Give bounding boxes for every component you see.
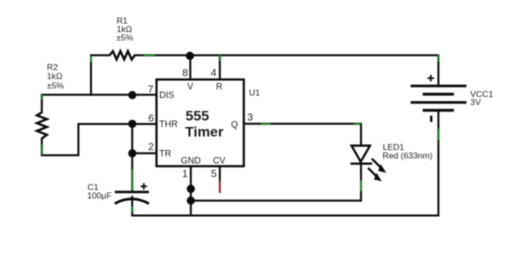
svg-text:3: 3: [247, 112, 253, 123]
svg-text:CV: CV: [213, 156, 226, 166]
wire: pin 8 V to top bus: [189, 56, 191, 80]
wire: top VCC bus from R1 right to battery +: [135, 55, 439, 86]
label LED1 value: [383, 142, 433, 160]
resistor R2: [37, 112, 47, 138]
wire: TR pin 2 horizontal: [132, 152, 156, 154]
wire: vertical THR-TR-C1 link: [131, 124, 133, 192]
svg-text:±5%: ±5%: [116, 32, 133, 42]
svg-text:DIS: DIS: [159, 90, 174, 100]
svg-text:±5%: ±5%: [47, 81, 64, 91]
node: junction dot THR: [128, 120, 136, 128]
wire: GND pin 1 down to bottom bus: [190, 166, 192, 215]
IC U1 555 timer box: [157, 80, 244, 167]
wire: green tick above R2 bottom corner: [41, 145, 43, 155]
wire: green tick below R1 left corner: [90, 56, 92, 62]
capacitor C1: [115, 183, 149, 204]
label R2 value: [47, 62, 64, 90]
svg-text:Q: Q: [231, 119, 238, 129]
LED LED1 symbol: [350, 146, 372, 164]
svg-text:6: 6: [148, 114, 154, 125]
svg-text:GND: GND: [181, 156, 202, 166]
LED light arrows: [368, 159, 385, 181]
wire: green tick below LED cathode: [360, 181, 362, 192]
svg-text:2: 2: [148, 142, 154, 153]
wire: LED cathode down: [360, 164, 362, 201]
battery VCC1: [411, 75, 467, 122]
svg-text:7: 7: [148, 84, 154, 95]
wire: CV pin 5 stub maroon unconnected end: [219, 181, 221, 192]
resistor R1: [110, 51, 135, 59]
svg-text:TR: TR: [159, 148, 171, 158]
svg-text:555: 555: [186, 109, 210, 125]
wire: green tick on battery - lead: [437, 129, 439, 141]
wire: DIS net horizontal (R2 top to pin 7): [42, 95, 157, 113]
wire: CV pin 5 stub black part: [219, 166, 221, 181]
svg-text:V: V: [187, 82, 193, 92]
wire: green tick pin 4 top: [219, 55, 221, 62]
svg-text:8: 8: [182, 68, 188, 79]
node: junction dot on DIS wire: [128, 91, 136, 99]
wire: green tick below R2 top corner: [41, 94, 43, 100]
svg-text:Timer: Timer: [185, 124, 224, 140]
wire: R1 left lead down to DIS net: [91, 55, 110, 95]
wire: green tick before LED corner: [354, 123, 361, 125]
svg-text:R: R: [216, 82, 223, 92]
node: junction dot GND lower: [187, 197, 195, 205]
wire: green tick right of R1: [144, 54, 156, 56]
svg-text:THR: THR: [159, 119, 178, 129]
node: junction dot GND upper: [187, 185, 195, 193]
label C1 value: [87, 182, 112, 201]
wire: R2 bottom lead to THR net: [42, 124, 157, 155]
wire: bottom ground bus and battery - lead: [132, 110, 438, 215]
wire: green tick right of Q pin: [261, 123, 271, 125]
wire: green segment below C1: [131, 206, 133, 213]
wire: green tick at battery + corner: [437, 55, 439, 62]
svg-text:4: 4: [211, 68, 217, 79]
label VCC1 value: [470, 89, 493, 107]
wire: pin 4 R to top bus: [219, 55, 221, 79]
label R1 value: [116, 15, 133, 42]
wire: LED return to GND node: [191, 200, 361, 202]
svg-text:Red (633nm): Red (633nm): [383, 150, 433, 160]
svg-text:100µF: 100µF: [87, 191, 112, 201]
wire: Q output to LED anode: [244, 124, 361, 146]
svg-text:1: 1: [182, 169, 188, 180]
node: junction dot at pin8/top bus: [186, 52, 194, 60]
svg-text:5: 5: [211, 169, 217, 180]
wire: green segment above C1: [131, 170, 133, 192]
svg-text:3V: 3V: [470, 97, 481, 107]
svg-text:U1: U1: [249, 88, 260, 98]
node: junction dot TR: [128, 149, 136, 157]
